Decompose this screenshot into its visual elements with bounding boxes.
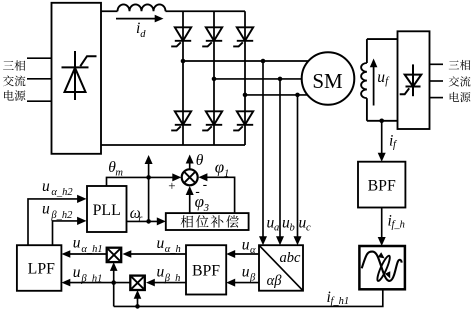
multiplier M2 bbox=[130, 276, 145, 290]
label phi3 bbox=[195, 192, 209, 214]
svg-text:u: u bbox=[377, 69, 385, 86]
node phase b (leg2 midpoint) bbox=[212, 77, 217, 82]
wire ua tap down to abc block bbox=[259, 61, 267, 245]
multiplier M1 bbox=[107, 248, 122, 262]
svg-text:BPF: BPF bbox=[192, 263, 220, 280]
svg-text:αβ: αβ bbox=[267, 273, 283, 289]
label omega_r bbox=[130, 205, 143, 224]
label u_alpha_h1 bbox=[73, 235, 103, 255]
winding Lf (field winding) with wires bbox=[361, 39, 397, 121]
svg-text:PLL: PLL bbox=[93, 202, 121, 219]
wire ub tap down to abc block bbox=[276, 79, 284, 245]
thyristor T2 (leg3 bottom) bbox=[233, 111, 253, 130]
wire left phase stub 1 bbox=[27, 57, 52, 59]
rectifier box U2 (field exciter) bbox=[398, 31, 430, 129]
thyristor T1 (leg1 top) bbox=[171, 27, 191, 46]
label uc bbox=[299, 215, 312, 234]
svg-text:u: u bbox=[42, 201, 50, 218]
label u_alpha bbox=[242, 237, 256, 257]
wire if_h1 from sine block to multipliers bbox=[114, 289, 383, 306]
wire right phase stub 3 bbox=[430, 97, 444, 99]
svg-text:β_h: β_h bbox=[164, 273, 181, 284]
svg-text:d: d bbox=[140, 29, 146, 40]
label id bbox=[136, 20, 146, 40]
thyristor T6 (leg2 bottom) bbox=[202, 111, 222, 130]
label ub bbox=[282, 215, 295, 234]
wire/arrow u_alpha_h from BPF2 to multiplier M1 bbox=[123, 250, 187, 258]
svg-text:β_h2: β_h2 bbox=[50, 210, 73, 221]
summing junction (circle with X) bbox=[182, 169, 198, 185]
wire uc tap down to abc block bbox=[294, 95, 302, 245]
svg-text:f_h: f_h bbox=[392, 220, 405, 231]
svg-text:f_h1: f_h1 bbox=[331, 296, 350, 307]
block 相位补偿 (phase compensation) bbox=[166, 213, 249, 230]
wire phase b to SM bbox=[214, 78, 304, 80]
wire/arrow u_beta_h1 from M2 to LPF bbox=[62, 279, 131, 287]
wire left phase stub 3 bbox=[27, 100, 52, 102]
wire/arrow BPF to sine block bbox=[378, 208, 386, 247]
wire u_beta_h2 from LPF to PLL bbox=[53, 217, 87, 245]
label u_alpha_h2 bbox=[42, 178, 73, 198]
wire bridge leg 2 (x=214) bbox=[213, 11, 215, 145]
wire u_alpha_h2 from LPF to PLL bbox=[28, 195, 87, 245]
arrow id (DC current direction) bbox=[116, 15, 164, 23]
icon sine wave inside harmonic detector bbox=[359, 246, 405, 289]
wire top DC rail (left of inductor) bbox=[101, 10, 118, 12]
svg-text:β_h1: β_h1 bbox=[80, 273, 102, 284]
svg-text:c: c bbox=[306, 223, 311, 234]
label if bbox=[389, 133, 398, 151]
label u_beta_h2 bbox=[42, 201, 73, 221]
svg-text:LPF: LPF bbox=[28, 261, 55, 278]
wire/arrow theta_m branch up to inverter bbox=[145, 155, 153, 221]
wire phase a to SM bbox=[183, 60, 313, 62]
label 三相交流电源 (right AC source) bbox=[449, 60, 471, 102]
block BPF2 (stator voltage band-pass filter) bbox=[186, 245, 226, 294]
motor SM (synchronous machine) bbox=[302, 52, 355, 105]
svg-text:1: 1 bbox=[224, 168, 229, 179]
node if_h1 branch to M2 bbox=[135, 304, 140, 309]
svg-text:φ: φ bbox=[195, 192, 204, 211]
label u_beta_h bbox=[157, 264, 181, 284]
svg-text:u: u bbox=[157, 264, 165, 281]
svg-text:b: b bbox=[290, 223, 295, 234]
wire/arrow omega_r from PLL to phase compensation bbox=[127, 217, 166, 225]
label if_h1 bbox=[327, 289, 350, 307]
wire theta_m from PLL to summing junction bbox=[107, 173, 182, 186]
svg-text:abc: abc bbox=[280, 250, 302, 266]
thyristor symbol inside U2 bbox=[400, 64, 422, 96]
node phase a (leg1 midpoint) bbox=[181, 59, 186, 64]
label u_beta bbox=[242, 263, 256, 283]
rectifier box U1 (source-side converter) bbox=[52, 3, 102, 154]
wire/arrow if_h1 branch up to M2 bbox=[134, 290, 142, 306]
thyristor T4 (leg1 bottom) bbox=[171, 111, 191, 130]
node if takeoff bbox=[379, 119, 384, 124]
svg-text:φ: φ bbox=[215, 158, 224, 177]
thyristor symbol inside U1 bbox=[62, 51, 97, 100]
wire bridge leg 1 (x=183) bbox=[182, 11, 184, 145]
node on u_beta_h1 line at riser bbox=[111, 280, 116, 285]
block abc-to-alphabeta transform bbox=[259, 245, 303, 291]
inductor Ld (DC link smoothing reactor) bbox=[118, 4, 166, 11]
label theta bbox=[196, 152, 204, 169]
node theta_m branch bbox=[146, 219, 151, 224]
label 三相交流电源 (left AC source) bbox=[3, 60, 25, 101]
label theta_m bbox=[108, 159, 123, 179]
thyristor T5 (leg3 top) bbox=[233, 27, 253, 46]
wire/arrow phi3 from phase compensation to summing junction bbox=[186, 186, 194, 213]
svg-text:u: u bbox=[73, 264, 81, 281]
wire/arrow theta output up to inverter bbox=[186, 155, 194, 170]
wire bridge leg 3 (x=245) bbox=[244, 11, 246, 145]
wire/arrow u_beta_h from BPF2 to multiplier M2 bbox=[146, 279, 186, 287]
label u_beta_h1 bbox=[73, 264, 103, 284]
label ua bbox=[267, 215, 280, 234]
wire/arrow u_alpha from abc block to BPF2 bbox=[226, 250, 259, 258]
label u_alpha_h bbox=[157, 235, 181, 255]
block PLL bbox=[87, 186, 127, 232]
wire right phase stub 2 bbox=[430, 80, 444, 82]
wire/arrow u_beta from abc block to BPF2 bbox=[226, 279, 259, 287]
wire if_h1 riser to M1 (with junction crossing) bbox=[110, 262, 118, 306]
node uc tap bbox=[295, 93, 300, 98]
label uf bbox=[377, 69, 390, 87]
svg-text:u: u bbox=[242, 263, 250, 280]
wire phase c to SM bbox=[245, 94, 313, 96]
svg-text:θ: θ bbox=[196, 152, 204, 169]
wire top DC rail (right of inductor) bbox=[166, 10, 246, 12]
svg-text:u: u bbox=[242, 237, 250, 254]
wire/arrow u_alpha_h1 from M1 to LPF bbox=[62, 250, 107, 258]
svg-text:m: m bbox=[115, 167, 123, 178]
wire bottom DC rail bbox=[101, 144, 245, 146]
svg-text:β: β bbox=[249, 273, 256, 284]
block LPF bbox=[17, 245, 62, 291]
wire/arrow if down to BPF bbox=[378, 121, 386, 162]
node riser crossing theta_m line bbox=[146, 175, 151, 180]
node phase c (leg3 midpoint) bbox=[243, 93, 248, 98]
svg-text:a: a bbox=[274, 223, 279, 234]
wire phi1 from phase compensation to summing junction bbox=[198, 173, 234, 213]
svg-text:α_h2: α_h2 bbox=[51, 187, 73, 198]
node ub tap bbox=[278, 77, 283, 82]
label if_h bbox=[388, 213, 405, 231]
svg-text:α: α bbox=[250, 245, 256, 256]
label phi1 bbox=[215, 158, 229, 180]
svg-text:u: u bbox=[42, 178, 50, 195]
svg-text:α_h1: α_h1 bbox=[81, 244, 102, 255]
block BPF (field current band-pass filter) bbox=[358, 162, 405, 208]
node ua tap bbox=[261, 59, 266, 64]
svg-text:3: 3 bbox=[203, 203, 209, 214]
svg-text:u: u bbox=[157, 235, 165, 252]
wire left phase stub 2 bbox=[27, 78, 52, 80]
wire right phase stub 1 bbox=[430, 63, 444, 65]
svg-text:SM: SM bbox=[312, 69, 343, 93]
svg-text:α_h: α_h bbox=[165, 244, 181, 255]
thyristor T3 (leg2 top) bbox=[202, 27, 222, 46]
svg-text:u: u bbox=[73, 235, 81, 252]
arrow uf (field voltage) bbox=[370, 59, 378, 106]
svg-text:+: + bbox=[168, 178, 175, 193]
svg-text:BPF: BPF bbox=[368, 177, 396, 194]
